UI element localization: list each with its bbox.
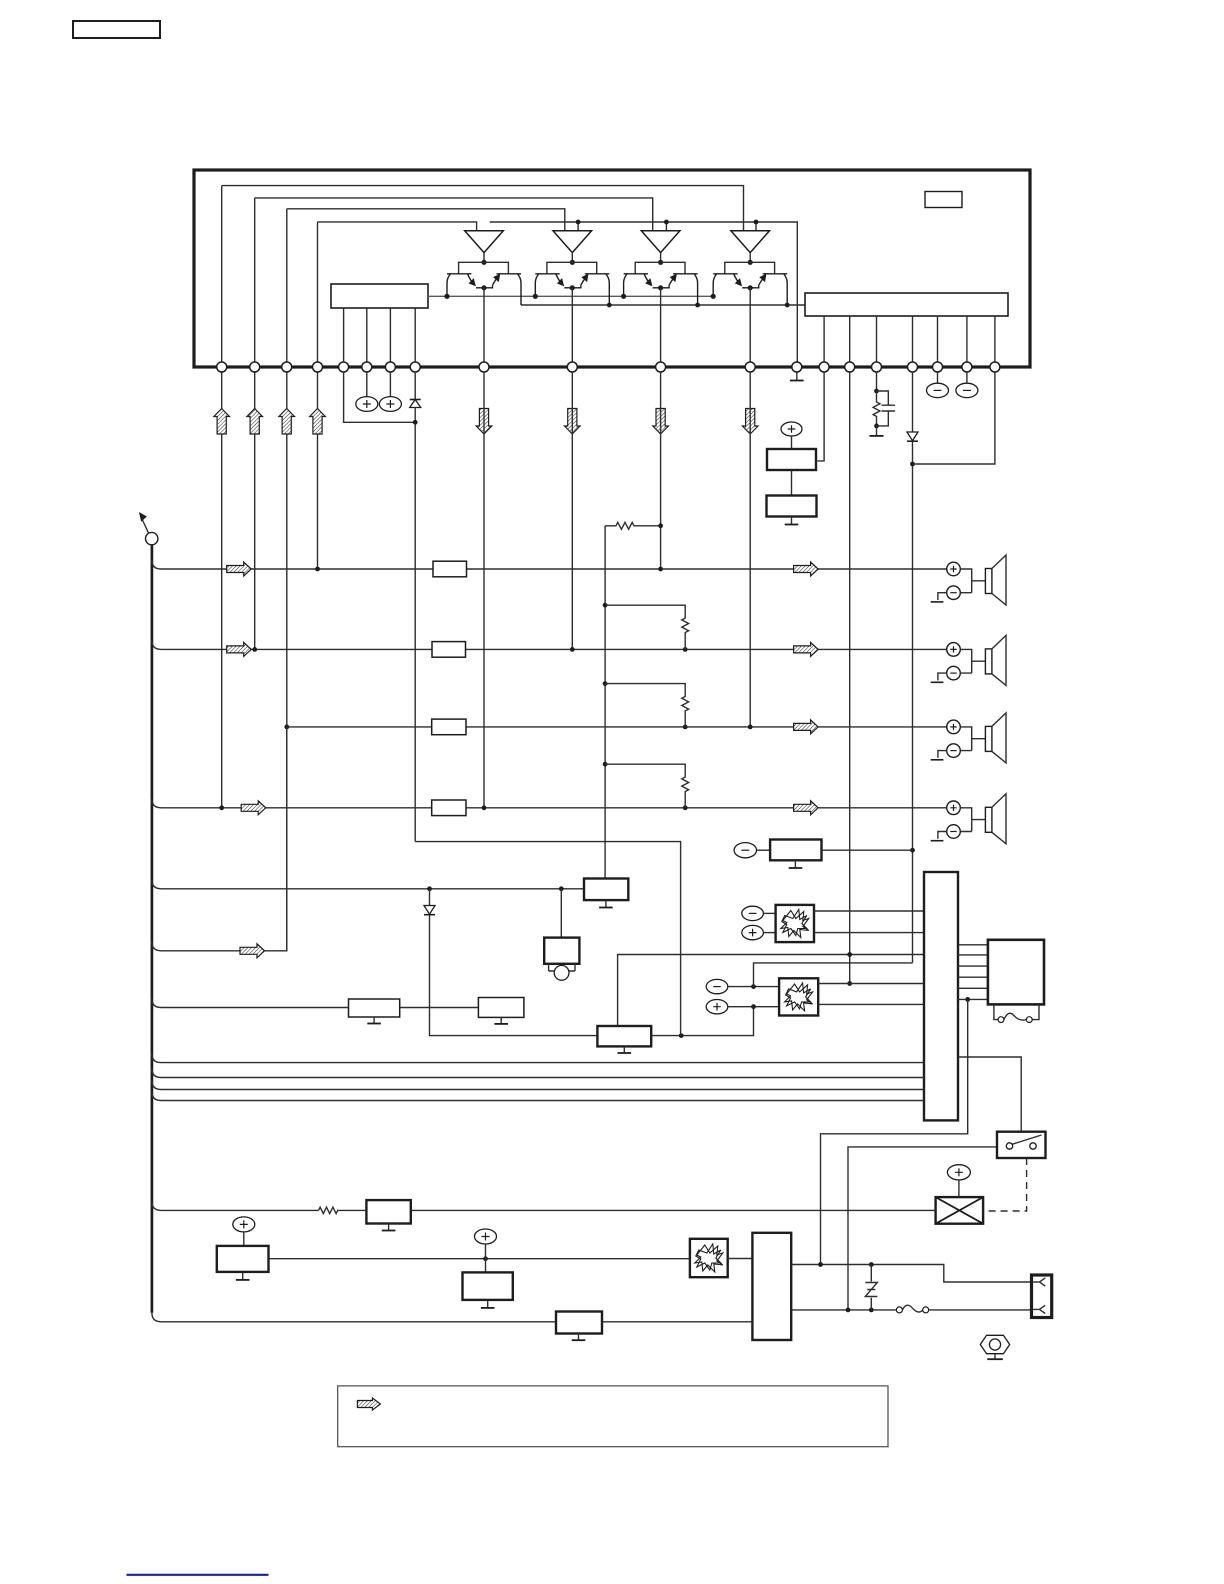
wire bus branch y=807.8 (152, 799, 161, 808)
resistor R1 with capacitor C4 at pin16 (870, 372, 896, 436)
node row1 pin11 (658, 567, 663, 572)
wire pin3 feedback bus to ch2 input (287, 209, 565, 231)
wire pin3 vertical (286, 209, 288, 951)
connector CN2 (1032, 1275, 1052, 1318)
wire SP4 terminals to driver (960, 808, 985, 832)
small block top-right of IC (925, 192, 962, 208)
wire regulator to filter block (791, 470, 793, 496)
ground below muting block (599, 900, 613, 907)
wire bus row to rect A and rect B (161, 1007, 478, 1009)
power amp IC U1 outline (194, 170, 1030, 367)
wire bias block stub pin6 (366, 308, 368, 367)
node ladder branch y=683.6 (603, 681, 608, 686)
wire lamp row from bus (161, 1209, 319, 1211)
speaker SP4 - terminal (947, 825, 961, 839)
wire ch4 output to pin (749, 288, 751, 367)
wire speaker row 1 (161, 568, 947, 570)
node block2 branch (559, 886, 564, 891)
wire rect F to motor M3 (269, 1258, 690, 1260)
node emitter rail ch3 (695, 303, 700, 308)
node row2 pin10 (570, 647, 575, 652)
flow arrow row4 b (794, 801, 819, 815)
signal-in arrow at x=254.7 (247, 409, 263, 435)
node ladder branch y=764.2 (603, 762, 608, 767)
transistor Q5 (upper device ch3) (624, 274, 661, 297)
transistor Q2 (lower device ch1) (484, 274, 521, 305)
wire ladder vertical (604, 526, 606, 879)
wire pin1 feedback bus to ch4 input (222, 186, 744, 231)
coil L1 row1 (433, 561, 467, 577)
node diode D3 top (427, 886, 432, 891)
wire speaker row 2 (161, 648, 947, 650)
node A4 output (748, 260, 753, 265)
wire pin11 vertical below IC (660, 372, 662, 569)
flow arrow row2 b (794, 642, 819, 656)
speaker SP3 + terminal (947, 720, 961, 734)
node row4 pin1 (219, 805, 224, 810)
node ch3 output junction (658, 285, 663, 290)
motor M1 (776, 905, 814, 942)
node right-input junction ch3 (664, 220, 669, 225)
wire bus bottom row (161, 1321, 556, 1323)
wires CN1 to cassette block (958, 945, 988, 1000)
IC pins row (217, 362, 1000, 372)
node emitter rail ch4 (785, 303, 790, 308)
signal-out arrow at x=572.3 (565, 409, 581, 435)
ground below rect F (236, 1272, 250, 1280)
wire SP3 minus to chassis (938, 751, 947, 758)
resistor R ladder branch to row (605, 684, 689, 727)
flow arrow row1 b (794, 562, 819, 576)
wire rect C output to motor2 plus (651, 1007, 753, 1036)
wire SP4 minus to chassis (938, 832, 947, 839)
node row1 pin4 (315, 567, 320, 572)
block rect G (463, 1272, 513, 1300)
wire pin20 to diode node (913, 372, 995, 464)
ground at pin13 (790, 372, 804, 381)
flow arrow row3 b (794, 720, 819, 734)
diode D3 (424, 889, 597, 1036)
node pin8 path end (679, 1033, 684, 1038)
block rect B (478, 998, 524, 1018)
ground below filter block (785, 517, 799, 525)
wire bus branch y=1077.5 (152, 1069, 161, 1078)
node row4 ladder (683, 805, 688, 810)
node deck row1 cassette link (818, 1262, 823, 1267)
wire bus branch y=888.8 (152, 880, 161, 889)
node pin5/pin8 junction (413, 420, 418, 425)
wire protection block stub pin17 (912, 316, 914, 367)
link underline (127, 1574, 269, 1576)
capacitor C2 (+) at pin7 (379, 372, 401, 412)
speaker SP2 + terminal (947, 643, 961, 657)
signal-in arrow at x=317.5 (310, 409, 326, 435)
op-amp A2 (553, 231, 592, 253)
wire driver bar ch2 (547, 262, 597, 273)
capacitor C5 (-) at pin18 (927, 372, 949, 398)
wire gray row to tall connector (618, 955, 924, 1026)
wire protection block stub pin18 (937, 316, 939, 367)
wire bus branch y=1100.5 (152, 1092, 161, 1101)
node row4 pin9 (482, 805, 487, 810)
block rect F (217, 1246, 269, 1272)
capacitor C12 (+) above lamp (947, 1165, 970, 1197)
transistor Q3 (upper device ch2) (535, 274, 572, 297)
block rect E (366, 1200, 410, 1223)
node deck row2 Z bottom (869, 1308, 874, 1313)
coil L4 row4 (432, 800, 466, 816)
node right-input junction ch4 (754, 220, 759, 225)
wire motor M3 to deck block (728, 1258, 753, 1260)
wire pin12 vertical below IC (749, 372, 751, 727)
wire bias block stub pin5 (343, 308, 345, 367)
wire A4 output to driver bar (749, 253, 751, 263)
wire speaker row 4 (161, 807, 947, 809)
wire pin4 vertical (317, 222, 319, 569)
wire bus bottom branch (152, 1313, 161, 1322)
speaker SP2 - terminal (947, 666, 961, 680)
node deck row2 switch link (846, 1308, 851, 1313)
node A1 output (481, 260, 486, 265)
wire protection block stub pin20 (994, 316, 996, 367)
legend flow arrow (357, 1398, 380, 1410)
ground below rect G (481, 1300, 495, 1308)
speaker SP4 + terminal (947, 801, 961, 815)
transistor Q7 (upper device ch4) (713, 274, 750, 297)
wire ch1 output to pin (483, 288, 485, 367)
node ch4 upper emitter on rail (711, 294, 716, 299)
resistor R ladder branch to row (605, 605, 689, 649)
resistor R2 horizontal (605, 522, 661, 529)
wire bus branch y=1007.5 (152, 999, 161, 1008)
speaker SP1 body (985, 555, 1006, 605)
node diode D2 / pin20 junction (910, 462, 915, 467)
wire SP2 terminals to driver (960, 649, 985, 673)
ground below rect D (572, 1334, 586, 1341)
node row3 pin3 tee (284, 725, 289, 730)
wire protection block stub pin19 (966, 316, 968, 367)
capacitor C13 (+) above rect F (233, 1217, 255, 1246)
capacitor C9 (-) motor2 (706, 979, 779, 993)
ground below rect H (789, 860, 803, 868)
wire bus branch y=649.4 (152, 640, 161, 649)
wire A2 output to driver bar (571, 253, 573, 263)
dashed link switch to lamp (983, 1158, 1027, 1211)
wire tap down to rect G (485, 1259, 487, 1273)
signal-in arrow at x=221.7 (214, 409, 230, 435)
wire ch2 right input stub (577, 222, 579, 231)
op-amp A4 (731, 231, 770, 253)
node A3 output (658, 260, 663, 265)
node right-input junction ch2 (576, 220, 581, 225)
diode D1 below pin8 (410, 372, 421, 842)
wire driver bar ch3 (635, 262, 685, 273)
wire speaker row 3 (287, 726, 947, 728)
ground below rect B (494, 1017, 508, 1024)
wire protection block stub pin14 (823, 316, 825, 367)
op-amp A1 (465, 231, 504, 253)
buzzer sounder (549, 964, 575, 980)
node deck row1 Z top (869, 1262, 874, 1267)
wire deck output row 2 with fuse F1 (791, 1305, 1031, 1313)
cassette tape symbol (994, 1004, 1039, 1022)
wire bus branch y=569 (152, 560, 161, 569)
protection block inside IC (805, 293, 1008, 316)
cassette mechanism block (988, 940, 1044, 1005)
wire bus row to muting block (161, 888, 584, 890)
signal-out arrow at x=750.2 (742, 409, 758, 435)
flow arrow row1 a (227, 562, 252, 576)
capacitor C10 (+) motor2 (706, 1000, 779, 1014)
wire A1 output to driver bar (483, 253, 485, 263)
wire pin1 vertical (221, 186, 223, 808)
wire ch3 right input stub (665, 222, 667, 231)
filter block below regulator (767, 496, 817, 517)
node pin15 end on motor line (847, 981, 852, 986)
speaker SP1 + terminal (947, 562, 961, 576)
ground below rect A (367, 1017, 381, 1024)
wire pin14 to regulator (818, 372, 825, 461)
coil L2 row2 (432, 642, 466, 658)
buzzer block (544, 938, 579, 964)
wire bus lines to CN1 (161, 1063, 924, 1101)
capacitor C1 (+) at pin6 (356, 372, 378, 412)
wire motor M1 outputs (814, 911, 924, 933)
capacitor C6 (-) at pin19 (956, 372, 978, 398)
wire pin5 to diode node (344, 372, 416, 423)
wire bus branch y=1089.5 (152, 1081, 161, 1090)
wire supply rail gray (428, 295, 714, 297)
wire A3 output to driver bar (660, 253, 662, 263)
wire deck output row 1 (791, 1265, 1031, 1283)
deck block (752, 1233, 791, 1340)
node R2 on pin11 line (658, 523, 663, 528)
wire ch2 output to pin (571, 288, 573, 367)
wire ch4 right input stub (755, 222, 757, 231)
block rect C (597, 1026, 651, 1046)
wire bias block stub pin8 (414, 308, 416, 367)
capacitor C11 (-) rect H (734, 843, 770, 858)
wire SP2 minus to chassis (938, 673, 947, 680)
antenna symbol (139, 512, 158, 545)
transistor Q6 (lower device ch3) (661, 274, 698, 305)
wire pin8 path elbow (415, 842, 680, 1036)
flow arrow row2 a (227, 642, 252, 656)
wire pin4 feedback bus to ch1 input (318, 222, 477, 231)
ground below rect E (382, 1224, 396, 1231)
wire protection block stub pin16 (876, 316, 878, 367)
resistor R3 lamp row (319, 1207, 367, 1213)
wire pin2 feedback bus to ch3 input (255, 198, 653, 231)
wire pin15 long vertical (849, 372, 851, 984)
node A2 output (570, 260, 575, 265)
lamp LP1 (936, 1197, 984, 1224)
signal-out arrow at x=484 (476, 409, 492, 435)
regulator block (767, 449, 816, 470)
signal-in arrow at x=286.7 (279, 409, 295, 435)
wire rect D to deck block (602, 1321, 752, 1323)
capacitor C3 (+) above regulator (781, 422, 802, 449)
flow arrow row4 a (241, 801, 266, 815)
wire SP1 minus to chassis (938, 593, 947, 600)
wire motor M2 outputs (818, 984, 924, 1005)
transistor Q4 (lower device ch2) (572, 274, 609, 305)
wire SP1 terminals to driver (960, 569, 985, 593)
wire pin10 vertical below IC (571, 372, 573, 650)
block rect A (349, 999, 400, 1017)
node emitter rail ch2 (607, 303, 612, 308)
speaker SP4 body (985, 794, 1006, 844)
wire emitter rail black (521, 304, 805, 306)
title label box (73, 21, 160, 38)
speaker SP3 body (985, 713, 1006, 763)
node pin15 on gray row (847, 952, 852, 957)
resistor R ladder branch to row (605, 764, 689, 808)
transistor Q1 (upper device ch1) (447, 274, 484, 297)
node ch3 upper emitter on rail (621, 294, 626, 299)
node ch1 upper emitter on rail (444, 294, 449, 299)
capacitor C14 (+) above tap (475, 1229, 497, 1259)
speaker SP3 - terminal (947, 744, 961, 758)
chassis ground symbol (980, 1335, 1009, 1359)
block rect D (556, 1312, 602, 1334)
coil L3 row3 (432, 719, 466, 735)
node row3 pin12 (748, 725, 753, 730)
node row2 pin2 (252, 647, 257, 652)
speaker SP2 body (985, 635, 1006, 685)
tall connector CN1 (924, 872, 958, 1120)
impedance Z between deck rows (865, 1265, 877, 1310)
node pin17 path on minus wire (751, 984, 756, 989)
wire common right-input line to pin13 (490, 222, 798, 367)
node servo riser on plus wire (751, 1004, 756, 1009)
speaker SP1 - terminal (947, 586, 961, 600)
bias block inside IC (331, 284, 428, 308)
wire pin9 vertical below IC (483, 372, 485, 808)
motor M3 (690, 1239, 728, 1277)
node row2 ladder (683, 647, 688, 652)
legend box (338, 1386, 888, 1447)
wire pin17 routing to motor2 (754, 963, 913, 987)
node ladder branch y=605.2 (603, 603, 608, 608)
wire cassette junction to bottom row (821, 999, 968, 1264)
node tap to rect G (483, 1256, 488, 1261)
node cassette stub junction (965, 997, 970, 1002)
transistor Q8 (lower device ch4) (750, 274, 787, 305)
motor M2 (779, 978, 818, 1015)
wire pin2 vertical (254, 198, 256, 650)
muting block (584, 879, 628, 901)
wire rect E to lamp (411, 1209, 936, 1211)
wire CN1 to power switch (958, 1057, 1021, 1132)
wire bus branch y=1210.4 (152, 1201, 161, 1210)
wire switch feed from deck (848, 1147, 997, 1310)
wire driver bar ch1 (459, 262, 509, 273)
capacitor C7 (-) motor1 (742, 906, 776, 920)
signal-out arrow at x=660.6 (653, 409, 669, 435)
wire rect H output (822, 849, 913, 851)
wire bus branch y=950.8 (152, 942, 161, 951)
wire SP3 terminals to driver (960, 727, 985, 751)
wire branch to buzzer (560, 889, 562, 938)
wire bias block stub pin7 (389, 308, 391, 367)
wire driver bar ch4 (725, 262, 775, 273)
node ch2 upper emitter on rail (533, 294, 538, 299)
op-amp A3 (641, 231, 680, 253)
node ch4 output junction (748, 285, 753, 290)
power switch S1 (997, 1132, 1046, 1158)
wire bus branch y=1062.6 (152, 1054, 161, 1063)
diode D2 below pin17 (907, 372, 918, 963)
node row3 ladder (683, 725, 688, 730)
ground below rect C (618, 1046, 632, 1053)
capacitor C8 (+) motor1 (742, 925, 776, 939)
wire protection block stub pin15 (849, 316, 851, 367)
wire ch3 output to pin (660, 288, 662, 367)
node rect H output on pin17 line (910, 848, 915, 853)
wire bus feeder to row3 line (161, 727, 287, 951)
block rect H (770, 840, 821, 861)
main harness bus (151, 545, 154, 1313)
node ch2 output junction (570, 285, 575, 290)
flow arrow feeder (240, 944, 265, 958)
node ch1 output junction (481, 285, 486, 290)
